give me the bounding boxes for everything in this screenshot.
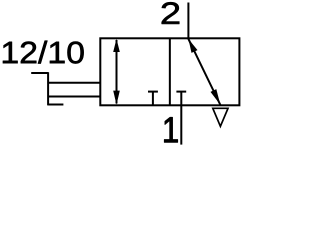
pilot actuator: box top: [48, 82, 100, 84]
blocked port T (left square): [148, 92, 158, 106]
valve body (two-position box): [100, 38, 239, 105]
flow arrow (right square, diagonal double-headed): [188, 39, 220, 105]
pilot actuator: vertical: [47, 72, 49, 105]
label 12/10: [3, 41, 84, 64]
port 1 line: [180, 92, 182, 145]
label 1: [164, 117, 177, 142]
pilot actuator: box bottom: [48, 96, 100, 98]
port 2 line: [187, 3, 189, 40]
flow arrow (left square, vertical double-headed): [113, 39, 120, 105]
position divider: [169, 38, 171, 105]
pilot actuator: bottom foot: [48, 104, 63, 106]
blocked port T (right square): [176, 91, 186, 93]
label 2: [162, 2, 180, 24]
pilot actuator: top foot: [31, 72, 48, 74]
exhaust triangle: [213, 108, 228, 126]
